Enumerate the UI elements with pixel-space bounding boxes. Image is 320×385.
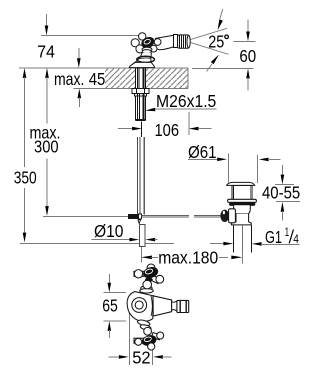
body donut (132, 298, 147, 313)
label M26x1.5 with leader (145, 91, 216, 111)
aerator barrel (plan) (177, 300, 189, 312)
25 degree spray angle (190, 9, 229, 72)
svg-text:max.: max. (54, 69, 84, 89)
spout tube (155, 35, 174, 38)
svg-text:max.180: max.180 (158, 247, 218, 267)
svg-text:M26x1.5: M26x1.5 (156, 91, 216, 111)
handle ball left (131, 39, 139, 47)
dimension 65 (102, 274, 126, 338)
svg-text:60: 60 (239, 46, 256, 66)
supply pipe (137, 137, 144, 212)
handle ball top-left (139, 33, 146, 40)
top handle cross (134, 264, 164, 289)
svg-text:Ø61: Ø61 (188, 142, 217, 162)
svg-text:350: 350 (14, 168, 37, 188)
svg-text:106: 106 (155, 120, 180, 140)
dimension max. 45 (50, 48, 105, 107)
top cap (227, 182, 255, 185)
svg-text:1: 1 (285, 227, 290, 239)
label O61 with leader (188, 142, 281, 183)
top stem (141, 286, 152, 291)
bonnet bell (130, 53, 152, 68)
base rim (129, 62, 154, 67)
svg-text:4: 4 (293, 234, 299, 246)
thin stub (141, 122, 143, 138)
BOTTOM VIEW (plan) (127, 264, 189, 350)
threaded shank (135, 96, 145, 120)
dimension 106 (118, 112, 212, 140)
svg-text:52: 52 (132, 348, 150, 368)
faucet shank through slab (129, 68, 149, 247)
bottom stem (137, 319, 150, 327)
label G1 1/4 with leader (210, 227, 300, 247)
body plate (127, 292, 153, 322)
svg-text:65: 65 (102, 296, 118, 316)
bottom handle cross (134, 327, 164, 350)
dimension max. 300 (30, 68, 129, 216)
dimension 350 (14, 68, 174, 244)
dimension 40-55 (262, 165, 300, 221)
label O10 with leader (92, 221, 158, 241)
handle ball bottom-left (136, 45, 144, 53)
washer (135, 93, 147, 96)
seal ring (230, 202, 255, 205)
svg-text:300: 300 (34, 136, 59, 156)
mounting nut (132, 89, 149, 94)
dimension 74 (37, 14, 138, 62)
svg-text:74: 74 (37, 42, 55, 62)
svg-text:45: 45 (89, 69, 106, 89)
svg-text:25: 25 (208, 32, 224, 52)
tailpipe (232, 225, 234, 252)
body (234, 205, 251, 214)
handle ball bottom-right (150, 45, 157, 52)
POP-UP WASTE (221, 182, 257, 252)
handle collar (142, 47, 152, 51)
flange rim (228, 199, 257, 202)
rod fitting on pipe (129, 215, 139, 219)
handle ball right (154, 39, 161, 46)
pipe end piece (139, 225, 145, 247)
countertop slab (19, 68, 188, 89)
pop-up rod (141, 215, 220, 217)
joint arc (151, 296, 152, 316)
svg-text:G1: G1 (265, 227, 282, 247)
svg-text:40-55: 40-55 (262, 183, 300, 203)
svg-text:Ø10: Ø10 (94, 221, 124, 241)
handle center dark cap (140, 36, 155, 50)
waist (172, 301, 177, 311)
spout cone (153, 296, 172, 316)
dimension 52 (109, 313, 172, 368)
dimension 60 (192, 20, 256, 91)
spout collar (174, 35, 178, 48)
FAUCET SIDE VIEW (129, 33, 190, 68)
neck (232, 185, 252, 199)
dimension max.180 (141, 247, 243, 267)
lever boss (229, 209, 236, 223)
aerator (178, 35, 190, 48)
